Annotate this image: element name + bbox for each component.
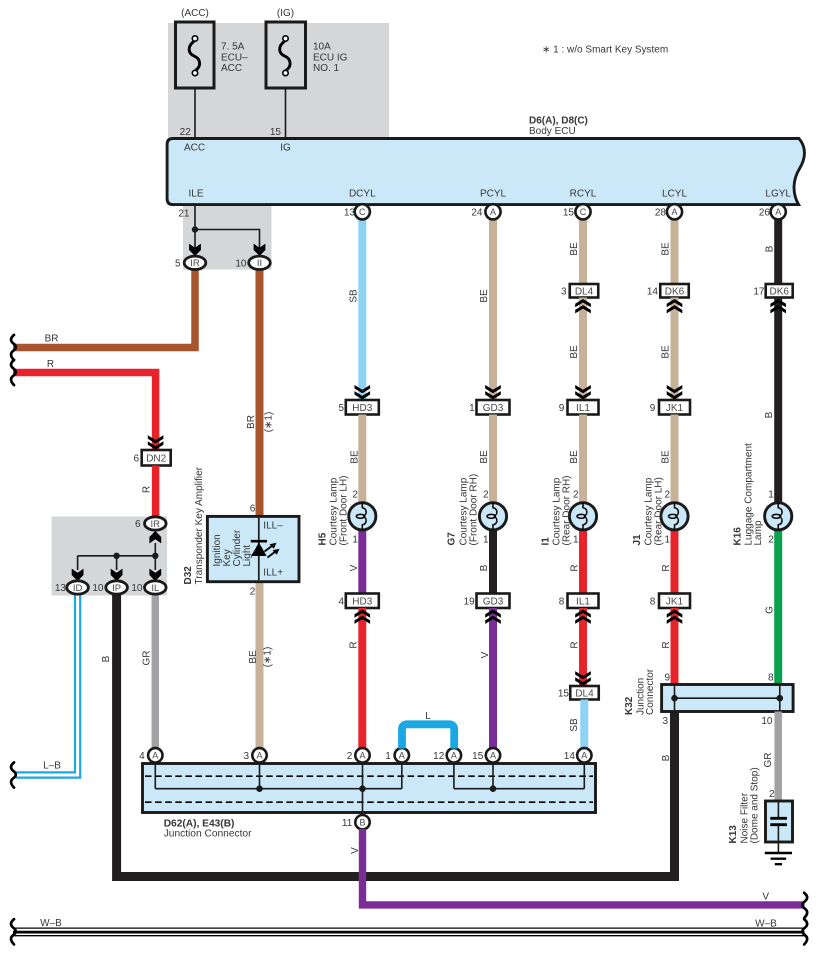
connector 10 II	[249, 256, 271, 269]
wire B black DK6 to K16	[774, 298, 782, 503]
svg-text:L–B: L–B	[43, 760, 61, 771]
svg-text:9: 9	[650, 403, 656, 414]
arrow into ID	[72, 569, 84, 581]
junction pin 11 B	[355, 815, 369, 829]
svg-text:W–B: W–B	[755, 919, 777, 930]
svg-text:BE: BE	[660, 450, 671, 464]
wire BE beige DL4 to IL1	[579, 298, 587, 401]
wire R red DN2 to IR	[152, 466, 160, 518]
wire BE beige HD3 to H5	[358, 415, 366, 503]
svg-text:G: G	[764, 606, 775, 614]
svg-text:BR: BR	[45, 333, 59, 344]
svg-text:A: A	[581, 751, 587, 761]
svg-text:24: 24	[471, 207, 483, 218]
svg-text:JK1: JK1	[666, 596, 684, 607]
svg-text:BE: BE	[569, 345, 580, 359]
connector 15 DL4	[570, 686, 599, 700]
svg-text:1: 1	[483, 534, 489, 545]
svg-text:2: 2	[483, 489, 489, 500]
body ECU D6(A) D8(C)	[167, 139, 804, 205]
svg-text:(Front Door RH): (Front Door RH)	[469, 474, 480, 546]
svg-text:ID: ID	[73, 583, 83, 594]
wire BR brown II to D32	[256, 268, 264, 517]
svg-text:ECU IG: ECU IG	[313, 52, 348, 63]
svg-text:5: 5	[338, 403, 344, 414]
svg-text:3: 3	[243, 751, 249, 762]
svg-text:DL4: DL4	[575, 286, 594, 297]
svg-text:R: R	[661, 641, 672, 648]
svg-text:28: 28	[655, 207, 667, 218]
svg-text:ILL–: ILL–	[263, 521, 283, 532]
junction pins A row	[148, 748, 162, 762]
svg-text:15: 15	[270, 127, 282, 138]
connector 4 HD3	[346, 594, 379, 609]
svg-text:D6(A), D8(C): D6(A), D8(C)	[529, 115, 588, 126]
svg-text:R: R	[569, 641, 580, 648]
svg-text:8: 8	[650, 596, 656, 607]
svg-text:14: 14	[647, 286, 659, 297]
svg-text:GR: GR	[763, 753, 774, 768]
wire L blue loop pins 1-12	[402, 724, 454, 748]
svg-text:K32: K32	[624, 696, 635, 715]
svg-text:8: 8	[559, 596, 565, 607]
svg-text:B: B	[479, 564, 490, 571]
svg-text:1: 1	[469, 403, 475, 414]
svg-text:JK1: JK1	[666, 403, 684, 414]
svg-text:(Rear Door RH): (Rear Door RH)	[562, 475, 573, 545]
arrow into IP	[111, 569, 123, 581]
connector 8 IL1	[568, 594, 599, 609]
op-amp D32 transponder key amplifier	[207, 516, 299, 581]
svg-text:22: 22	[180, 127, 192, 138]
svg-text:ECU–: ECU–	[221, 52, 248, 63]
wire V violet H5 to HD3	[358, 530, 366, 594]
grey panel ignition key switch block	[52, 517, 168, 596]
svg-text:A: A	[256, 751, 262, 761]
svg-text:NO. 1: NO. 1	[313, 63, 340, 74]
chevrons into IL1	[575, 385, 591, 399]
svg-text:14: 14	[564, 751, 576, 762]
svg-text:A: A	[359, 751, 365, 761]
junction connector D62(A) E43(B)	[143, 764, 596, 813]
fuse ECU-ACC 7.5A	[176, 22, 215, 88]
svg-text:15: 15	[558, 688, 570, 699]
svg-text:H5: H5	[318, 532, 329, 545]
svg-text:R: R	[47, 359, 54, 370]
svg-text:LGYL: LGYL	[765, 189, 791, 200]
wire BE beige PCYL	[489, 219, 497, 400]
svg-text:GD3: GD3	[483, 596, 504, 607]
svg-text:(∗1): (∗1)	[263, 412, 274, 433]
svg-text:2: 2	[352, 489, 358, 500]
wire B black G7 to GD3	[489, 530, 497, 594]
svg-text:10: 10	[761, 716, 773, 727]
pin 13 C DCYL	[355, 204, 370, 219]
svg-text:13: 13	[55, 583, 67, 594]
wire BE beige RCYL to DL4	[579, 219, 587, 284]
svg-text:Junction Connector: Junction Connector	[164, 828, 252, 839]
svg-text:1: 1	[665, 534, 671, 545]
wire BE beige D32 to junction 3A	[256, 582, 264, 749]
svg-text:SB: SB	[569, 718, 580, 732]
connector 10 IP	[106, 581, 128, 594]
wire BE beige JK1 to J1	[671, 415, 679, 503]
svg-text:A: A	[152, 751, 158, 761]
svg-text:∗ 1 : w/o Smart Key System: ∗ 1 : w/o Smart Key System	[542, 45, 668, 56]
connector 1 GD3	[477, 400, 510, 415]
svg-text:IR: IR	[190, 258, 200, 269]
svg-text:3: 3	[561, 286, 567, 297]
wire R red J1 to JK1	[671, 530, 679, 594]
pin 15 C RCYL	[575, 204, 590, 219]
svg-text:2: 2	[768, 534, 774, 545]
svg-text:6: 6	[250, 503, 256, 514]
svg-text:13: 13	[344, 207, 356, 218]
chevrons below DK6	[667, 299, 683, 313]
svg-text:(Rear Door LH): (Rear Door LH)	[654, 477, 665, 545]
svg-text:R: R	[141, 486, 152, 493]
svg-text:BE: BE	[349, 450, 360, 464]
svg-text:ILL+: ILL+	[263, 568, 283, 579]
svg-text:8: 8	[768, 673, 774, 684]
svg-text:26: 26	[759, 207, 771, 218]
ground	[777, 844, 779, 854]
wire BR brown from IR to left edge	[13, 268, 195, 348]
wire V violet GD3 to junction 15A	[489, 608, 497, 749]
chevrons below DL4	[575, 299, 591, 313]
svg-text:GR: GR	[141, 651, 152, 666]
svg-text:RCYL: RCYL	[570, 189, 597, 200]
wire BE beige LCYL to DK6	[671, 219, 679, 284]
svg-text:A: A	[775, 207, 781, 217]
lamp K16 luggage compartment	[765, 503, 792, 530]
svg-text:G7: G7	[447, 532, 458, 546]
svg-text:V: V	[349, 564, 360, 571]
svg-text:V: V	[350, 847, 361, 854]
svg-text:II: II	[257, 258, 262, 269]
svg-text:W–B: W–B	[40, 918, 62, 929]
wire B black IP to K32 pin3	[117, 594, 675, 877]
chevrons into JK1	[667, 385, 683, 399]
svg-text:K16: K16	[733, 527, 744, 546]
svg-text:ILE: ILE	[188, 189, 203, 200]
grey panel fuse block	[168, 23, 389, 139]
svg-text:IG: IG	[280, 143, 291, 154]
svg-text:19: 19	[464, 596, 476, 607]
svg-text:C: C	[359, 207, 366, 217]
svg-text:R: R	[348, 641, 359, 648]
pin 24 A PCYL	[485, 204, 500, 219]
svg-text:A: A	[399, 751, 405, 761]
svg-text:R: R	[569, 564, 580, 571]
svg-text:IP: IP	[112, 583, 121, 594]
wire R red from left edge to DN2	[13, 373, 156, 451]
svg-text:B: B	[764, 411, 775, 418]
svg-text:D32: D32	[183, 566, 194, 585]
lamp I1 courtesy rear door RH	[569, 503, 596, 530]
svg-text:HD3: HD3	[352, 596, 372, 607]
capacitor K13 noise filter	[766, 801, 793, 842]
wire G green K16 to K32 pin8	[774, 530, 782, 685]
lamp J1 courtesy rear door LH	[661, 503, 688, 530]
svg-text:A: A	[671, 207, 677, 217]
svg-text:LCYL: LCYL	[662, 189, 687, 200]
wire W-B white/black bottom	[13, 927, 805, 929]
connector 10 IL	[145, 581, 167, 594]
svg-text:DK6: DK6	[769, 286, 789, 297]
wire BE beige DK6 to JK1	[671, 298, 679, 401]
connector 3 DL4	[570, 284, 599, 298]
svg-text:C: C	[580, 207, 587, 217]
junction connector K32	[662, 685, 794, 712]
connector 9 JK1	[659, 400, 690, 415]
pin 28 A LCYL	[667, 204, 682, 219]
wire fuse IG lead	[285, 88, 287, 139]
lamp H5 courtesy front door LH	[349, 503, 376, 530]
svg-text:BE: BE	[479, 289, 490, 303]
svg-text:BR: BR	[246, 415, 257, 429]
wire BE beige GD3 to G7	[489, 415, 497, 503]
svg-text:I1: I1	[541, 537, 552, 546]
svg-text:B: B	[359, 817, 365, 827]
svg-text:IL1: IL1	[576, 403, 590, 414]
svg-text:DCYL: DCYL	[349, 189, 376, 200]
connector 17 DK6	[766, 284, 793, 298]
svg-text:DN2: DN2	[146, 453, 166, 464]
connector 19 GD3	[477, 594, 510, 609]
svg-text:9: 9	[664, 673, 670, 684]
svg-text:6: 6	[133, 454, 139, 465]
svg-text:Lamp: Lamp	[753, 520, 764, 545]
wire R red HD3 to junction 2A	[358, 608, 366, 749]
svg-text:A: A	[490, 207, 496, 217]
svg-text:GD3: GD3	[483, 403, 504, 414]
svg-text:BE: BE	[660, 242, 671, 256]
svg-text:A: A	[490, 751, 496, 761]
svg-text:ACC: ACC	[221, 63, 242, 74]
svg-text:11: 11	[342, 818, 353, 829]
LED ignition key cylinder light	[251, 540, 267, 543]
svg-text:V: V	[762, 891, 769, 902]
svg-text:Connector: Connector	[645, 668, 656, 715]
svg-text:10A: 10A	[313, 42, 331, 53]
lamp G7 courtesy front door RH	[479, 503, 506, 530]
chevrons into DN2	[148, 435, 164, 449]
svg-text:2: 2	[250, 587, 256, 598]
svg-text:(Front Door LH): (Front Door LH)	[339, 475, 350, 545]
svg-text:1: 1	[768, 489, 774, 500]
svg-text:BE: BE	[479, 450, 490, 464]
svg-text:B: B	[661, 754, 672, 761]
svg-text:L: L	[425, 711, 431, 722]
chevrons into GD3	[485, 385, 501, 399]
svg-text:BE: BE	[660, 345, 671, 359]
svg-text:IR: IR	[151, 519, 161, 530]
arrow into IR	[189, 244, 201, 256]
svg-text:15: 15	[472, 751, 484, 762]
svg-text:Light: Light	[242, 545, 253, 567]
wire ILE pin21 branch	[194, 205, 196, 252]
svg-text:PCYL: PCYL	[480, 189, 507, 200]
svg-text:DK6: DK6	[665, 286, 685, 297]
connector DN2	[142, 450, 171, 466]
grey panel below ECU pin 21	[183, 203, 272, 270]
svg-text:2: 2	[665, 489, 671, 500]
svg-text:ACC: ACC	[184, 143, 205, 154]
connector 14 DK6	[660, 284, 689, 298]
chevrons below DK6	[770, 299, 786, 313]
wire fuse ACC lead	[194, 88, 196, 139]
fuse ECU IG NO.1 10A	[266, 22, 306, 88]
svg-text:9: 9	[559, 403, 565, 414]
wire SB skyblue DL4 to junction 14A	[580, 700, 588, 749]
svg-text:2: 2	[347, 751, 353, 762]
svg-text:(Dome and Stop): (Dome and Stop)	[750, 767, 761, 843]
svg-text:1: 1	[352, 534, 358, 545]
wire GR gray K32 pin10 to K13	[774, 712, 782, 802]
svg-text:4: 4	[338, 596, 344, 607]
svg-text:BE: BE	[248, 650, 259, 664]
svg-text:21: 21	[178, 209, 190, 220]
connector 6 IR lower	[145, 517, 167, 530]
svg-text:2: 2	[769, 789, 775, 800]
svg-text:1: 1	[385, 751, 391, 762]
connector 5 IR	[184, 256, 206, 269]
connector 13 ID	[67, 581, 89, 594]
svg-text:2: 2	[573, 489, 579, 500]
connector 5 HD3	[346, 400, 379, 415]
chevrons into HD3	[355, 385, 371, 399]
svg-text:Transponder Key Amplifier: Transponder Key Amplifier	[194, 466, 205, 584]
svg-text:6: 6	[135, 519, 141, 530]
wire BE beige IL1 to I1	[579, 415, 587, 503]
svg-text:V: V	[480, 651, 491, 658]
svg-text:(IG): (IG)	[277, 8, 294, 19]
svg-text:3: 3	[662, 716, 668, 727]
svg-text:5: 5	[175, 258, 181, 269]
pin 26 A LGYL	[771, 204, 786, 219]
svg-text:B: B	[101, 655, 112, 662]
svg-text:12: 12	[433, 751, 445, 762]
svg-text:J1: J1	[632, 534, 643, 546]
svg-text:4: 4	[139, 751, 145, 762]
wire R red JK1 to K32 pin9	[671, 608, 679, 685]
svg-text:HD3: HD3	[352, 403, 372, 414]
svg-text:(ACC): (ACC)	[181, 8, 209, 19]
svg-text:A: A	[451, 751, 457, 761]
chevrons into DL4 lower	[575, 671, 591, 685]
svg-text:B: B	[764, 245, 775, 252]
svg-text:SB: SB	[348, 289, 359, 303]
svg-text:DL4: DL4	[575, 688, 594, 699]
svg-text:K13: K13	[728, 825, 739, 844]
svg-text:BE: BE	[569, 450, 580, 464]
wire SB skyblue DCYL	[358, 219, 366, 400]
svg-text:7. 5A: 7. 5A	[221, 42, 245, 53]
svg-text:10: 10	[235, 258, 247, 269]
svg-text:10: 10	[131, 583, 143, 594]
svg-text:(∗1): (∗1)	[262, 647, 273, 668]
svg-text:15: 15	[563, 207, 575, 218]
svg-text:10: 10	[92, 583, 104, 594]
wire GR gray IL to junction 4A	[152, 594, 160, 749]
wire L-B blue/black ID to left edge	[16, 594, 78, 775]
svg-text:1: 1	[573, 534, 579, 545]
svg-text:IL1: IL1	[576, 596, 590, 607]
arrow into IL	[149, 569, 161, 581]
arrow into II	[254, 244, 266, 256]
wire V violet junction 11B to right edge	[363, 829, 805, 905]
connector 9 IL1	[568, 400, 599, 415]
wire R red I1 to IL1	[579, 530, 587, 594]
svg-text:17: 17	[753, 286, 765, 297]
svg-text:Body ECU: Body ECU	[529, 126, 576, 137]
connector 8 JK1	[659, 594, 690, 609]
wire R red IL1 to DL4	[579, 608, 587, 686]
wire B black LGYL to DK6	[774, 219, 782, 284]
svg-text:IL: IL	[151, 583, 159, 594]
svg-text:R: R	[661, 564, 672, 571]
arrow up into IR	[149, 531, 161, 543]
svg-text:BE: BE	[569, 242, 580, 256]
